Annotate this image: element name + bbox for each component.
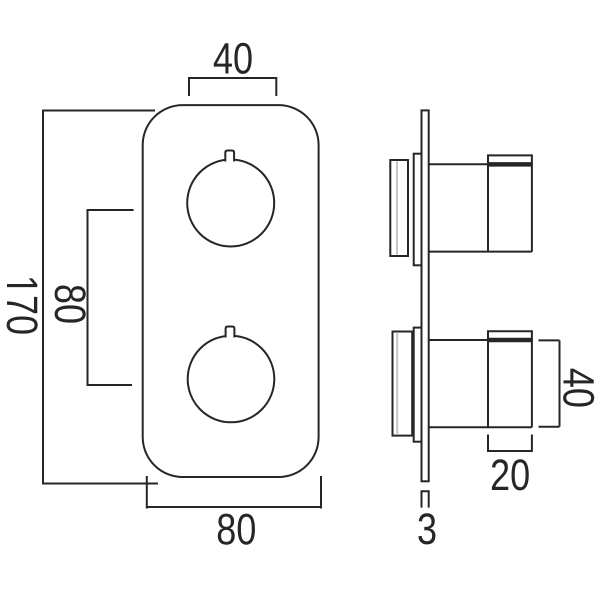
bottom valve flange <box>414 328 422 442</box>
bottom knob cylinder top edge <box>429 339 488 341</box>
side view wall plate <box>422 110 429 481</box>
top knob cap outline <box>488 155 532 251</box>
bottom knob circle <box>188 336 275 423</box>
top valve back body shading line <box>396 162 398 255</box>
wall plate break symbol <box>422 491 429 507</box>
bottom valve back body shading line <box>396 333 398 434</box>
dimension text 80 inner <box>55 285 86 322</box>
top knob circle <box>187 160 274 247</box>
dimension 80 bottom bracket <box>147 476 321 509</box>
dimension 170 left bracket <box>43 111 158 484</box>
top knob bottom edge <box>429 251 532 253</box>
bottom valve back body <box>393 332 413 436</box>
top valve back body <box>390 160 408 256</box>
front view faceplate outline <box>143 105 319 477</box>
top valve flange <box>414 154 422 266</box>
dimension 40 right bracket <box>539 340 560 426</box>
dimension text 170 <box>7 278 38 333</box>
top knob cap shoulder band <box>488 162 532 167</box>
dimension text 3 <box>418 513 435 544</box>
dimension 40 top bracket <box>189 78 276 96</box>
top knob cylinder top edge <box>429 163 488 165</box>
bottom knob indicator notch <box>226 327 235 338</box>
dimension text 20 <box>492 459 529 490</box>
bottom knob cap outline <box>488 331 532 427</box>
dimension 20 bracket <box>488 435 532 452</box>
top knob indicator notch <box>225 151 234 162</box>
dimension text 40 top <box>214 43 252 74</box>
dimension text 40 right <box>563 369 594 407</box>
bottom knob cap shoulder band <box>488 338 532 343</box>
bottom knob bottom edge <box>429 426 532 428</box>
dimension text 80 bottom <box>218 514 255 545</box>
dimension 80 inner bracket <box>88 210 134 385</box>
